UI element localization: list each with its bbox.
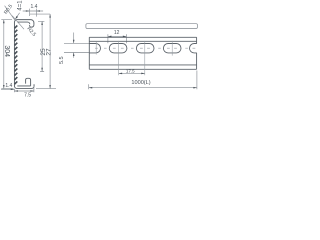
svg-text:12: 12 <box>114 30 120 36</box>
svg-text:304: 304 <box>3 45 10 57</box>
svg-text:1.4: 1.4 <box>5 83 12 89</box>
svg-text:4=1: 4=1 <box>18 0 24 11</box>
svg-text:27: 27 <box>46 48 53 56</box>
svg-text:7.5: 7.5 <box>24 93 31 99</box>
svg-text:17.5: 17.5 <box>126 68 135 73</box>
svg-text:1.4: 1.4 <box>31 4 38 10</box>
svg-text:1000(L): 1000(L) <box>131 80 150 86</box>
svg-text:5.5: 5.5 <box>59 56 65 64</box>
